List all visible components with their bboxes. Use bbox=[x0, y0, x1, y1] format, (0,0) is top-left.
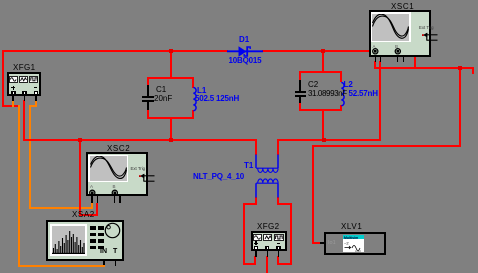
svg-text:load: load bbox=[355, 249, 361, 253]
svg-text:~2: ~2 bbox=[344, 240, 349, 245]
